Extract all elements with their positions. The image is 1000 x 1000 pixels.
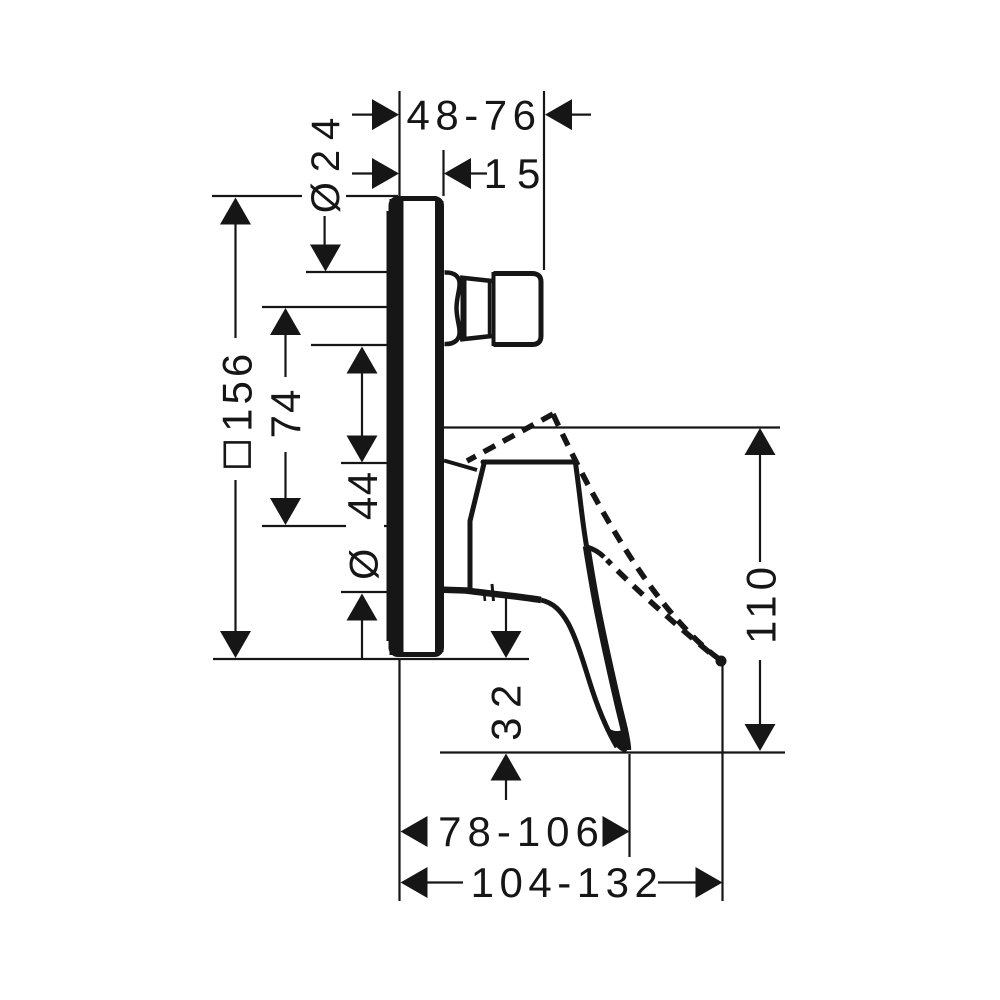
svg-text:Ø24: Ø24: [304, 108, 348, 214]
svg-text:32: 32: [483, 675, 530, 741]
dimension label Ø24: [304, 108, 348, 214]
lever tip: [606, 726, 628, 753]
extension line knob face: [543, 91, 545, 270]
svg-text:48-76: 48-76: [407, 91, 542, 138]
extension line plate front: [442, 150, 444, 196]
dimension 48-76: [352, 91, 591, 138]
dimension label 44: [339, 470, 386, 520]
extension line knob center: [262, 306, 388, 308]
dashed raised lever top edge: [553, 414, 719, 659]
handle parting tick 2: [484, 592, 485, 601]
extension line hub center: [262, 525, 390, 527]
knob cap outline: [494, 274, 542, 345]
dimension square156: [213, 198, 260, 659]
svg-text:104-132: 104-132: [471, 859, 664, 906]
dimension 74: [262, 308, 309, 525]
dimension 110: [738, 428, 785, 751]
handle hub left edge: [470, 464, 484, 591]
knob mid section right edge: [488, 281, 492, 336]
svg-text:110: 110: [738, 562, 785, 644]
svg-text:156: 156: [213, 350, 260, 432]
extension line knob top: [306, 271, 390, 273]
dashed raised lever bottom edge: [607, 560, 715, 657]
extension line plate bottom: [213, 658, 529, 660]
knob mid section bottom: [460, 336, 492, 340]
dimension Ø24 arrow: [324, 216, 326, 248]
lever outer edge: [576, 463, 587, 546]
plate left wall band: [387, 211, 391, 641]
dimension 78-106: [401, 808, 630, 855]
handle underside lower: [541, 600, 617, 747]
extension line hub top: [341, 462, 390, 464]
plate right band: [435, 201, 444, 652]
raised lever tip dot: [716, 656, 727, 667]
knob neck: [445, 272, 460, 344]
extension line wall plane top: [398, 91, 400, 196]
dimension Ø44 lower arrow: [347, 594, 378, 621]
svg-text:Ø: Ø: [343, 543, 387, 580]
extension line plate top: [212, 195, 398, 197]
raised lever underside solid arc: [587, 547, 604, 557]
svg-text:44: 44: [339, 470, 386, 520]
extension line lever tip level: [440, 751, 785, 753]
extension line dashed tip top: [444, 426, 780, 428]
dimension 104-132: [401, 859, 723, 906]
knob cap left face: [492, 272, 496, 346]
extension line knob bottom: [311, 344, 388, 346]
knob mid section left edge: [461, 276, 467, 341]
dimension label Ø: [343, 543, 387, 580]
lever outer edge lower: [587, 546, 628, 750]
dashed raised lever left edge: [467, 414, 553, 461]
svg-text:78-106: 78-106: [438, 808, 605, 855]
extension line dashed tip: [721, 666, 723, 901]
plate left band: [390, 199, 404, 655]
extension line hub bottom: [341, 591, 390, 593]
extension line wall plane bottom: [398, 659, 400, 901]
dimension 15: [352, 150, 550, 197]
handle hub cone line: [444, 461, 477, 471]
svg-text:74: 74: [262, 388, 309, 439]
svg-text:15: 15: [484, 150, 551, 197]
extension line solid tip: [628, 754, 630, 857]
knob mid section top: [460, 278, 492, 282]
handle hub top edge: [483, 460, 576, 465]
handle parting tick: [492, 584, 494, 601]
dimension 32: [483, 598, 530, 800]
dimension Ø44 upper arrows: [347, 347, 378, 374]
handle underside edge: [436, 590, 541, 601]
escutcheon plate outline: [391, 199, 442, 655]
